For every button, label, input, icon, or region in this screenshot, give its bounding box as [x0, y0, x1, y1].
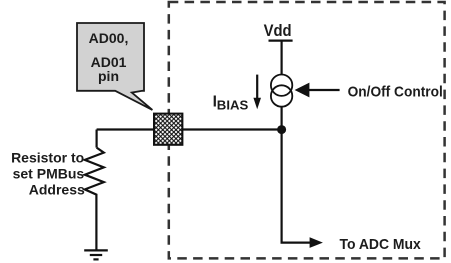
svg-text:Resistor to: Resistor to — [11, 150, 84, 166]
svg-text:Vdd: Vdd — [264, 22, 292, 40]
svg-text:To ADC Mux: To ADC Mux — [340, 237, 422, 253]
svg-text:set PMBus: set PMBus — [13, 166, 85, 182]
svg-text:AD00,: AD00, — [89, 30, 129, 46]
svg-text:On/Off Control: On/Off Control — [348, 84, 443, 100]
svg-text:Address: Address — [29, 182, 85, 198]
svg-text:BIAS: BIAS — [217, 97, 249, 112]
svg-text:pin: pin — [98, 68, 119, 84]
